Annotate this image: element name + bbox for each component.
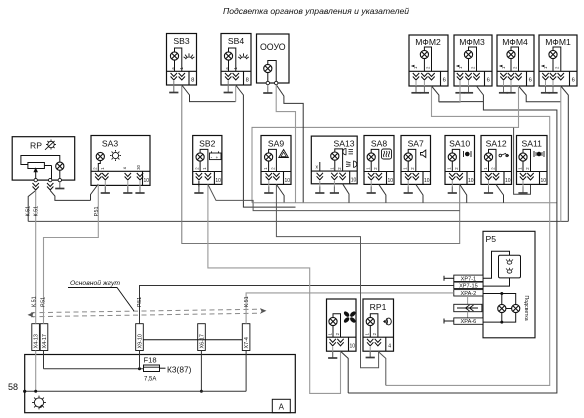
svg-text:ХРА-6: ХРА-6 — [461, 319, 477, 325]
svg-text:К.51: К.51 — [33, 206, 39, 217]
svg-text:SA12: SA12 — [486, 139, 507, 149]
sun lamp icon in box — [32, 396, 46, 410]
svg-text:SA10: SA10 — [449, 139, 470, 149]
svg-text:6: 6 — [443, 78, 446, 84]
svg-text:6: 6 — [529, 78, 532, 84]
svg-text:F18: F18 — [144, 356, 157, 365]
ground SA7 pin1 — [407, 181, 409, 193]
grounds SA13 — [319, 181, 321, 193]
svg-text:SA7: SA7 — [408, 139, 424, 149]
wire MFM2 pin3 straight (gray) right-side route to RP1 — [386, 86, 550, 385]
svg-text:RP: RP — [30, 141, 42, 151]
unit MFM2 (МФМ2) — [409, 35, 448, 86]
svg-text:SA3: SA3 — [102, 139, 118, 149]
svg-text:К3(87): К3(87) — [167, 365, 192, 375]
junction fuse input — [138, 367, 141, 370]
internal loop wire — [21, 156, 60, 165]
svg-text:SA8: SA8 — [371, 139, 387, 149]
wire SB3 pin2 diagonal to SB4 — [182, 85, 236, 102]
wire module to XP7-15 — [483, 278, 510, 286]
inter-sheet arrow box — [454, 296, 482, 318]
lamp RP — [56, 162, 64, 170]
svg-text:Р.51: Р.51 — [94, 206, 100, 216]
wire SA3 pin1 diagonal — [91, 184, 99, 200]
svg-text:+: + — [216, 155, 219, 160]
ground SB4 pin1 — [227, 81, 229, 86]
frame around SA switch group — [252, 127, 514, 202]
wire SA12 diagonal to bus — [496, 184, 504, 202]
svg-text:ХР7-15: ХР7-15 — [459, 283, 478, 289]
switch SA3 — [91, 136, 150, 186]
unit MFM1 (МФМ1) — [539, 35, 577, 86]
heater control unit (fan) — [327, 299, 357, 351]
grounds MFM3 pins 1,2 — [459, 81, 461, 86]
grounds MFM2 pins 1,2 — [415, 81, 417, 86]
svg-text:SB2: SB2 — [199, 139, 215, 149]
switch SB4 — [221, 34, 251, 86]
svg-text:МФМ1: МФМ1 — [545, 37, 571, 47]
defroster icon — [382, 149, 392, 159]
ground RP1 pin1 — [369, 347, 371, 358]
horn icon — [421, 150, 426, 158]
wiper arrow — [34, 169, 37, 181]
wire RP pin2 diagonal to SA3 link — [50, 191, 90, 201]
svg-text:7,5А: 7,5А — [144, 377, 156, 383]
svg-text:Х7-4: Х7-4 — [244, 337, 250, 348]
svg-text:Подсветка: Подсветка — [523, 296, 529, 321]
svg-text:10: 10 — [215, 178, 221, 184]
svg-text:SA9: SA9 — [268, 139, 284, 149]
A box — [272, 399, 290, 412]
svg-text:МФМ4: МФМ4 — [502, 37, 528, 47]
wire SA9 pin2 diagonal to group bus — [276, 184, 284, 202]
rheostat unit RP — [12, 137, 74, 182]
svg-text:SB3: SB3 — [173, 36, 189, 46]
harness connector X9-10 — [136, 324, 144, 351]
ground SB2 pin1 — [198, 181, 200, 193]
switch SA8 — [364, 136, 394, 185]
headlight icons — [343, 149, 357, 168]
svg-text:Х6-17: Х6-17 — [200, 334, 206, 348]
wire MFM1 pin3 diagonal down right edge — [561, 86, 569, 221]
svg-text:ХР7-1: ХР7-1 — [461, 276, 477, 282]
wire MFM4 pin3 straight (gray) to OOUO route — [514, 86, 519, 127]
warning triangle icon — [279, 150, 289, 158]
svg-text:МФМ3: МФМ3 — [459, 37, 485, 47]
harness left arrow — [28, 312, 35, 318]
svg-text:10: 10 — [468, 178, 474, 184]
main harness dashed lines — [31, 309, 261, 317]
svg-text:10: 10 — [388, 178, 394, 184]
wire SB3 pin2 straight down (gray) then right to SA10 — [182, 85, 460, 244]
wire X9-10 up and right to XP7-15 — [140, 286, 454, 324]
wire fuse feed inside bottom box — [44, 368, 144, 370]
switch SB2 — [193, 136, 222, 185]
switch SA12 — [481, 136, 512, 185]
wire X7-4 down into box — [245, 351, 247, 392]
unit OOUO (ООУО) — [257, 34, 290, 85]
fog lamp icon — [463, 151, 465, 157]
wire SB2 pin2 diagonal to K.51 and SA bus — [208, 184, 460, 210]
relay unit RP1 — [363, 299, 394, 351]
connector XPA-6 — [444, 318, 483, 325]
wire SB2 pin2 straight (gray) to fan unit — [208, 184, 341, 393]
horn/washer icon — [383, 320, 386, 324]
harness connector X4-17 — [40, 324, 48, 351]
svg-text:SA11: SA11 — [522, 139, 543, 149]
switch SA9 — [261, 136, 291, 185]
ground SA10 pin1 — [451, 181, 453, 193]
ground SA11 pin1 — [522, 181, 524, 193]
svg-text:RP1: RP1 — [370, 302, 387, 312]
ground SA12 pin1 — [488, 181, 490, 193]
svg-text:Подсветка органов управления и: Подсветка органов управления и указателе… — [223, 6, 409, 16]
display module box — [499, 255, 521, 278]
wire X9-10 down to fuse — [139, 351, 141, 369]
connector XP7-15 — [454, 282, 483, 289]
svg-text:МФМ2: МФМ2 — [415, 37, 441, 47]
svg-text:6: 6 — [487, 78, 490, 84]
harness connector X6-17 — [198, 324, 206, 351]
wire RP1 pin2 diagonal — [378, 351, 386, 385]
wire SB4 pin2 straight (gray) — [235, 85, 237, 102]
wire K.51 long bus line — [28, 220, 568, 222]
ground SA9 pin1 — [268, 181, 270, 193]
svg-text:10: 10 — [541, 178, 547, 184]
harness right arrow — [260, 308, 267, 314]
unit MFM4 (МФМ4) — [497, 35, 534, 86]
wire SA10 diagonal to bus — [460, 184, 467, 202]
wire MFM2 pin3 diagonal — [432, 86, 484, 102]
work lamp icon — [533, 151, 535, 157]
wire X6-17 down to bus 58 — [200, 351, 202, 392]
ground SA8 pin1 — [370, 181, 372, 193]
svg-text:Х4-13: Х4-13 — [34, 334, 40, 348]
fan icon — [343, 310, 357, 323]
lamps chain — [483, 294, 516, 305]
harness connector X4-13 — [32, 324, 40, 351]
wire MFM3 pin1 aux (gray) — [439, 86, 460, 102]
grounds MFM4 pins 1,2 — [503, 81, 505, 86]
connector XPA-2 — [454, 290, 483, 297]
svg-text:SB4: SB4 — [228, 36, 244, 46]
wire OOUO pin2 straight (gray) to SA9 bus — [276, 85, 295, 203]
bottom unit box (switch module) — [8, 355, 295, 413]
svg-text:10: 10 — [285, 178, 291, 184]
ground RP pin3 — [55, 182, 64, 189]
wire SB4 pin2 diagonal down to 207 line — [236, 85, 296, 207]
unit MFM3 (МФМ3) — [454, 35, 492, 86]
svg-text:К.51: К.51 — [26, 206, 32, 217]
svg-text:А: А — [279, 403, 285, 412]
ground fan pin1 — [332, 347, 334, 358]
svg-text:58: 58 — [8, 382, 18, 392]
svg-text:10: 10 — [350, 344, 356, 350]
svg-text:10: 10 — [505, 178, 511, 184]
battery icon — [210, 153, 222, 160]
svg-text:8: 8 — [246, 78, 249, 84]
svg-text:30: 30 — [136, 164, 141, 169]
wire XP7-1 to module — [483, 251, 510, 278]
switch SA10 — [445, 136, 475, 185]
harness internal link X9-10..X7-4 — [143, 339, 242, 341]
svg-text:10: 10 — [351, 178, 357, 184]
svg-text:10: 10 — [144, 178, 150, 184]
svg-text:Р.51: Р.51 — [40, 297, 46, 307]
rheostat body — [28, 163, 45, 169]
grounds MFM1 pins 1,2 — [545, 81, 547, 86]
svg-text:SA13: SA13 — [333, 139, 354, 149]
switch SA7 — [401, 136, 431, 185]
svg-text:ООУО: ООУО — [260, 42, 286, 52]
wire MFM1 pin3 straight down to K.51 — [560, 86, 562, 221]
wire SA group bus (frame bottom) — [252, 202, 557, 204]
svg-text:ХРА-2: ХРА-2 — [461, 291, 477, 297]
wire SA9 pin2 straight down to RP1 hook — [276, 184, 378, 367]
wire RP pin1 straight down to X4-13 — [35, 191, 37, 324]
svg-text:4: 4 — [388, 344, 391, 350]
svg-text:Р.51: Р.51 — [137, 297, 143, 307]
ground SB3 pin1 — [173, 81, 175, 86]
connector XP7-1 — [444, 275, 483, 282]
wire MFM4 pin3 diagonal to MFM1 drop — [519, 86, 561, 102]
wire OOUO pin2 diagonal long route to SA11 — [276, 85, 303, 203]
wire MFM3 pin3 diagonal right-side route to fan unit — [348, 86, 557, 393]
grounds SA3 — [104, 181, 106, 193]
switch SA11 — [517, 136, 548, 185]
wire fan unit pin2 diagonal — [341, 351, 349, 393]
ground OOUO pin1 — [263, 87, 272, 94]
wire X7-4 up and right to XPA-2 — [246, 293, 454, 324]
svg-text:10: 10 — [424, 178, 430, 184]
switch SB3 — [167, 34, 197, 86]
switch icon — [499, 154, 502, 157]
wire 58 bus inside bottom box — [25, 390, 246, 392]
wire SA3 pin1 P.51 down to X4-17 — [44, 184, 99, 324]
svg-text:8: 8 — [191, 78, 194, 84]
svg-text:К.51: К.51 — [244, 296, 250, 307]
svg-text:6: 6 — [572, 78, 575, 84]
svg-text:Х9-10: Х9-10 — [138, 334, 144, 348]
wire SA13 diagonal — [343, 184, 349, 203]
svg-text:Основной жгут: Основной жгут — [70, 279, 120, 287]
svg-text:Х4-17: Х4-17 — [42, 334, 48, 348]
wire SA8 diagonal — [379, 184, 386, 202]
wire SA7 diagonal — [416, 184, 423, 202]
wire RP pin1 diagonal to K.51 bus — [28, 191, 36, 222]
svg-text:К.51: К.51 — [32, 296, 38, 307]
switch SA13 — [311, 136, 357, 184]
RP pin chevrons — [33, 183, 39, 190]
instrument cluster P5 — [483, 231, 535, 337]
harness connector X7-4 — [242, 324, 250, 351]
fuse F18 — [144, 356, 192, 383]
svg-text:Р5: Р5 — [486, 234, 497, 244]
